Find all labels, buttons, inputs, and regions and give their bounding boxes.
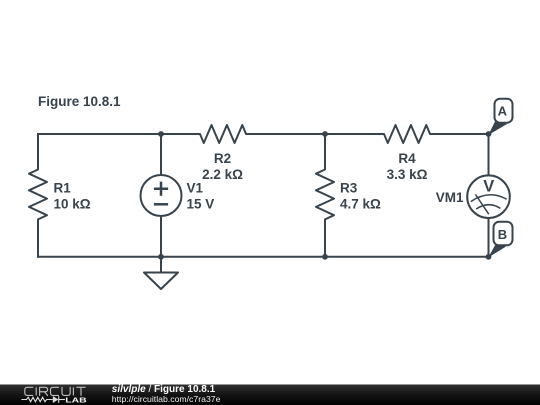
svg-text:http://circuitlab.com/c7ra37e: http://circuitlab.com/c7ra37e [112,394,221,404]
svg-text:Figure 10.8.1: Figure 10.8.1 [38,94,121,109]
svg-text:R3: R3 [340,181,358,196]
svg-text:R1: R1 [54,181,72,196]
svg-text:A: A [498,104,508,119]
svg-text:R2: R2 [214,151,231,166]
svg-text:V: V [483,177,494,195]
svg-text:B: B [498,227,507,242]
svg-text:15 V: 15 V [187,197,215,212]
svg-text:2.2 kΩ: 2.2 kΩ [202,167,243,182]
svg-text:VM1: VM1 [436,190,464,205]
svg-text:10 kΩ: 10 kΩ [54,197,91,212]
svg-text:R4: R4 [398,151,416,166]
svg-text:LAB: LAB [65,395,87,404]
svg-text:V1: V1 [187,181,204,196]
svg-text:4.7 kΩ: 4.7 kΩ [340,197,381,212]
svg-text:3.3 kΩ: 3.3 kΩ [387,167,428,182]
